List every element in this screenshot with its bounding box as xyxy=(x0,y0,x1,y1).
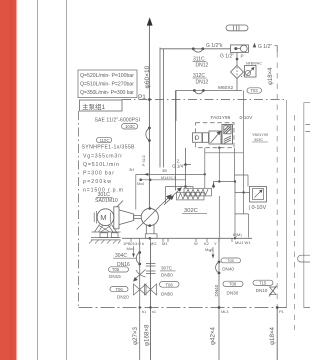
svg-text:DN20: DN20 xyxy=(117,294,129,299)
svg-text:P: P xyxy=(241,54,244,59)
solenoid xyxy=(193,133,203,143)
drain drop line (DN16) xyxy=(139,242,141,308)
enclosure pump group 2 (partial right) xyxy=(287,100,304,308)
filter (diamond) xyxy=(231,66,244,79)
pump compensator valve A xyxy=(184,188,212,196)
main pump (variable displacement) xyxy=(141,208,158,225)
svg-text:| 0-10V: | 0-10V xyxy=(249,205,267,211)
svg-text:Y: Y xyxy=(214,241,217,246)
base hatching xyxy=(89,240,121,244)
LS pipe phi18 vertical (dashed through enclosure) xyxy=(276,52,278,308)
svg-text:b1: b1 xyxy=(142,310,146,314)
compensator pilot line pair xyxy=(160,48,164,168)
svg-text:Vg=355cm3/r: Vg=355cm3/r xyxy=(83,154,122,160)
junction riser at boundary xyxy=(148,98,151,101)
svg-text:T06: T06 xyxy=(116,287,124,292)
motor fan cone xyxy=(119,210,134,225)
svg-text:s1: s1 xyxy=(152,310,156,314)
compensator top links xyxy=(214,182,250,193)
valve subplate dashed box xyxy=(196,123,235,148)
clogging indicator xyxy=(245,66,257,78)
compensator arrow 1 xyxy=(172,190,180,197)
partial pill right edge xyxy=(298,255,310,262)
compensator arrow 2 xyxy=(164,198,172,205)
svg-text:DN12: DN12 xyxy=(196,80,209,86)
enclosure pump group 1 (dash-dot boundary) xyxy=(122,99,287,101)
pump suction drop xyxy=(153,225,155,234)
pilot cross link xyxy=(235,175,249,187)
partial label right edge top xyxy=(306,125,311,132)
svg-text:T09: T09 xyxy=(227,258,235,263)
svg-text:DN12: DN12 xyxy=(196,63,209,69)
pump data box Q/P xyxy=(78,70,137,98)
svg-text:Q=350L/min- P=300 bar: Q=350L/min- P=300 bar xyxy=(80,90,134,96)
svg-text:Q=510L/min- P=270bar: Q=510L/min- P=270bar xyxy=(80,82,134,88)
svg-text:φ27×3: φ27×3 xyxy=(132,326,139,345)
corner to LS pipe xyxy=(276,46,278,53)
svg-text:3H: 3H xyxy=(129,167,134,172)
svg-text:T08: T08 xyxy=(229,282,237,287)
svg-text:DN40: DN40 xyxy=(214,284,219,296)
svg-text:φ42×4: φ42×4 xyxy=(210,326,217,345)
pump drain drop xyxy=(145,225,147,234)
link below valve xyxy=(204,148,206,189)
svg-text:Q=510L/min: Q=510L/min xyxy=(83,162,119,168)
tag pill T06 DN20 xyxy=(110,287,128,292)
svg-text:b: b xyxy=(142,241,145,246)
tag pill T09 DN40 xyxy=(221,258,241,263)
arrow + G1/2 right xyxy=(253,43,256,48)
svg-text:NFBN/HC: NFBN/HC xyxy=(246,62,262,66)
svg-text:DN40: DN40 xyxy=(222,266,234,271)
tag pill T08b DN30 xyxy=(223,281,243,286)
svg-text:M60X2: M60X2 xyxy=(218,85,234,91)
pump compensator valve B xyxy=(177,192,205,200)
svg-text:T08: T08 xyxy=(166,282,174,287)
hose on P1 riser xyxy=(148,127,151,130)
throttle valve xyxy=(134,270,146,281)
svg-text:φ18×4: φ18×4 xyxy=(268,67,274,85)
return filter riser xyxy=(236,52,238,90)
svg-text:φ18×4: φ18×4 xyxy=(269,326,276,345)
svg-text:M1: M1 xyxy=(162,241,168,246)
hose in return run xyxy=(193,89,196,92)
svg-text:P 31/2: P 31/2 xyxy=(142,155,146,166)
suction drop line (big) xyxy=(150,243,152,308)
pump variable arrow xyxy=(137,197,170,230)
sheet border line left xyxy=(37,0,39,360)
svg-text:主泵组1: 主泵组1 xyxy=(82,102,106,111)
svg-text:DN50: DN50 xyxy=(161,291,173,296)
shaft coupling xyxy=(134,215,142,218)
svg-text:YB01Y99: YB01Y99 xyxy=(252,133,268,137)
svg-text:303C: 303C xyxy=(254,138,263,142)
motor base feet xyxy=(92,231,121,233)
tag pill T15 DN10 xyxy=(253,280,273,285)
pilot line with arrow xyxy=(136,173,205,175)
svg-text:G 1/2"k: G 1/2"k xyxy=(206,43,223,49)
svg-text:Q=520L/min- P=100bar: Q=520L/min- P=100bar xyxy=(80,73,134,79)
svg-text:MU1 W1: MU1 W1 xyxy=(235,240,251,245)
svg-text:T03: T03 xyxy=(251,88,259,93)
tag pill 103C xyxy=(122,123,138,129)
top pipe run xyxy=(160,48,231,50)
svg-text:3B: 3B xyxy=(162,168,167,173)
return pipe run y90 xyxy=(176,90,243,92)
pump port manifold xyxy=(122,237,252,239)
svg-text:G 1/2": G 1/2" xyxy=(220,54,234,60)
svg-text:0-10V: 0-10V xyxy=(240,115,254,121)
hose in top run xyxy=(192,47,195,50)
tag pill 110C xyxy=(97,137,112,142)
pilot drop from return run xyxy=(175,91,177,191)
right link of valve xyxy=(242,91,244,193)
svg-text:T05: T05 xyxy=(112,267,120,272)
swivel angle sensor xyxy=(250,187,267,203)
svg-text:M: M xyxy=(100,213,106,222)
hose on right drop xyxy=(218,261,221,264)
svg-text:P=300 bar: P=300 bar xyxy=(83,170,114,176)
svg-text:K2: K2 xyxy=(204,241,210,246)
motor terminal lines xyxy=(94,211,96,224)
motor mount legs xyxy=(95,225,117,233)
sensor drop lines xyxy=(242,191,244,193)
svg-text:SAE 11/2"-6000PSI: SAE 11/2"-6000PSI xyxy=(95,117,141,123)
svg-text:DN15: DN15 xyxy=(109,274,121,279)
svg-text:DN50: DN50 xyxy=(161,273,173,278)
svg-text:G 1/4": G 1/4" xyxy=(172,164,185,169)
group title box 主泵组1 xyxy=(80,100,123,111)
svg-text:Mo4: Mo4 xyxy=(137,182,144,186)
svg-text:φ60×10: φ60×10 xyxy=(144,65,151,88)
bell housing xyxy=(114,207,119,229)
base plate xyxy=(91,238,121,240)
svg-text:p=200kw: p=200kw xyxy=(83,179,111,185)
case drain drop right (DN40) xyxy=(218,238,220,360)
svg-text:SYNHPFE1-1x/355B: SYNHPFE1-1x/355B xyxy=(82,145,136,151)
junction dots xyxy=(149,179,152,182)
svg-text:DN30: DN30 xyxy=(227,290,239,295)
tag pill T02 (top) xyxy=(226,25,248,31)
pipe P1 riser arrow (to system) xyxy=(148,25,150,208)
svg-text:φ168×8: φ168×8 xyxy=(144,324,151,346)
pilot component box xyxy=(222,125,233,145)
svg-text:W: W xyxy=(194,241,198,246)
pilot drop from valve block xyxy=(186,148,192,187)
red sidebar xyxy=(0,0,17,360)
case line corner xyxy=(135,174,137,209)
tag pill T03 xyxy=(247,88,262,93)
svg-text:ML3: ML3 xyxy=(221,310,228,314)
shutoff valve (bowtie) xyxy=(145,284,157,295)
tag pill T08 DN50 xyxy=(160,281,180,287)
svg-text:G 1/2": G 1/2" xyxy=(258,44,272,50)
svg-text:FA01Y99: FA01Y99 xyxy=(211,115,231,121)
svg-text:MG: MG xyxy=(150,241,156,246)
svg-text:307C: 307C xyxy=(161,266,173,271)
breather fitting xyxy=(231,45,249,53)
valve body xyxy=(209,131,221,144)
tag pill T05 DN15 xyxy=(109,267,129,272)
test coupling valve xyxy=(270,287,277,295)
svg-text:SA01M10: SA01M10 xyxy=(95,198,118,204)
pilot line to port 2 xyxy=(141,179,186,181)
electric motor M1 xyxy=(97,209,114,226)
hose on drain drop xyxy=(138,251,141,254)
sheet border line right xyxy=(66,0,68,360)
link valve to drain xyxy=(218,148,220,239)
svg-text:110C: 110C xyxy=(100,138,110,143)
svg-text:DN10: DN10 xyxy=(256,288,268,293)
LS link to compensator xyxy=(166,187,193,204)
svg-text:P1: P1 xyxy=(279,309,285,314)
valve block right drop xyxy=(234,148,236,182)
flange pair xyxy=(146,264,156,274)
svg-text:B(M): B(M) xyxy=(233,232,242,237)
shutoff valve (bowtie) xyxy=(134,284,147,295)
svg-text:103C: 103C xyxy=(125,124,135,129)
svg-text:T15: T15 xyxy=(259,281,267,286)
